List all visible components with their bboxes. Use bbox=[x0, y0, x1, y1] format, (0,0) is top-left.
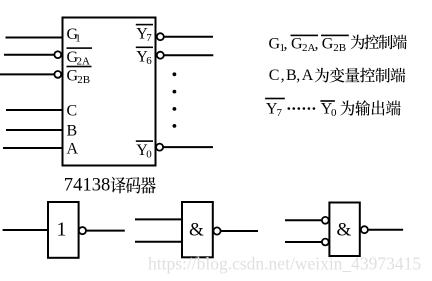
svg-text:https://blog.csdn.net/weixin_4: https://blog.csdn.net/weixin_43973415 bbox=[148, 254, 421, 274]
bubble NAND output bbox=[213, 227, 220, 234]
bubble Y0 active-low output bbox=[156, 144, 163, 151]
svg-text:C: C bbox=[67, 103, 78, 120]
bubble G2A active-low input bbox=[54, 51, 61, 58]
svg-text:6: 6 bbox=[146, 55, 152, 67]
svg-text:&: & bbox=[337, 220, 352, 241]
wire NAND input 1 bbox=[135, 218, 182, 220]
svg-text:1: 1 bbox=[75, 33, 81, 45]
svg-text:,: , bbox=[281, 67, 285, 84]
overline of Y7 bbox=[136, 24, 153, 26]
svg-text:2B: 2B bbox=[77, 74, 90, 86]
svg-text:G: G bbox=[322, 36, 334, 53]
wire Y6 output bbox=[164, 54, 213, 56]
svg-text:0: 0 bbox=[331, 107, 337, 119]
wire NAND input 2 bbox=[135, 241, 182, 243]
wire NAND output bbox=[221, 230, 258, 232]
wire A input bbox=[3, 147, 63, 149]
bubble U4 output bbox=[361, 226, 368, 233]
wire Y0 output bbox=[163, 146, 213, 148]
bubble Y7 active-low output bbox=[157, 33, 164, 40]
bubble NOT output bbox=[79, 227, 86, 234]
gate U3: NAND gate body bbox=[135, 202, 258, 257]
wire C input bbox=[6, 109, 63, 111]
IC U1 74138 decoder body bbox=[63, 18, 156, 166]
ellipsis dots between Y6 and Y0 bbox=[173, 72, 177, 127]
overline of Y6 bbox=[136, 47, 153, 49]
gate U4: AND gate with inverted inputs body bbox=[285, 203, 403, 257]
bubble G2B active-low input bbox=[54, 71, 61, 78]
note line 3: Y7 ... Y0 output terminals bbox=[265, 98, 285, 100]
wire U4 output bbox=[368, 229, 403, 231]
svg-text:A: A bbox=[67, 141, 79, 158]
overline of Y0 bbox=[136, 140, 153, 142]
svg-text:B: B bbox=[286, 67, 297, 84]
overline of G2B bbox=[67, 66, 92, 68]
wire G2A input bbox=[4, 54, 54, 56]
gate U2: NOT gate body bbox=[3, 202, 125, 258]
svg-text:7: 7 bbox=[146, 32, 152, 44]
svg-text:7: 7 bbox=[277, 107, 283, 119]
wire G1 input bbox=[6, 37, 63, 39]
caption 译码器 bbox=[111, 177, 156, 194]
overline of G2A bbox=[67, 47, 93, 49]
wire NOT input bbox=[3, 229, 48, 231]
wire U4 input 2 bbox=[285, 241, 322, 243]
bubble U4 input 1 bbox=[322, 217, 329, 224]
svg-text:74138: 74138 bbox=[64, 175, 110, 196]
svg-text:,: , bbox=[296, 67, 300, 84]
svg-text:&: & bbox=[189, 220, 204, 241]
wire U4 input 1 bbox=[285, 219, 322, 221]
svg-text:B: B bbox=[67, 123, 78, 140]
svg-text:2B: 2B bbox=[333, 42, 346, 54]
svg-text:,: , bbox=[315, 36, 319, 53]
svg-text:A: A bbox=[302, 67, 314, 84]
svg-text:C: C bbox=[269, 67, 280, 84]
svg-text:,: , bbox=[284, 36, 288, 53]
bubble U4 input 2 bbox=[322, 239, 329, 246]
svg-text:2A: 2A bbox=[302, 42, 316, 54]
svg-text:0: 0 bbox=[146, 149, 152, 161]
bubble Y6 active-low output bbox=[157, 52, 164, 59]
wire NOT output bbox=[86, 230, 125, 232]
svg-text:1: 1 bbox=[57, 219, 67, 241]
wire B input bbox=[6, 129, 63, 131]
wire Y7 output bbox=[164, 36, 213, 38]
wire G2B input bbox=[0, 73, 54, 75]
